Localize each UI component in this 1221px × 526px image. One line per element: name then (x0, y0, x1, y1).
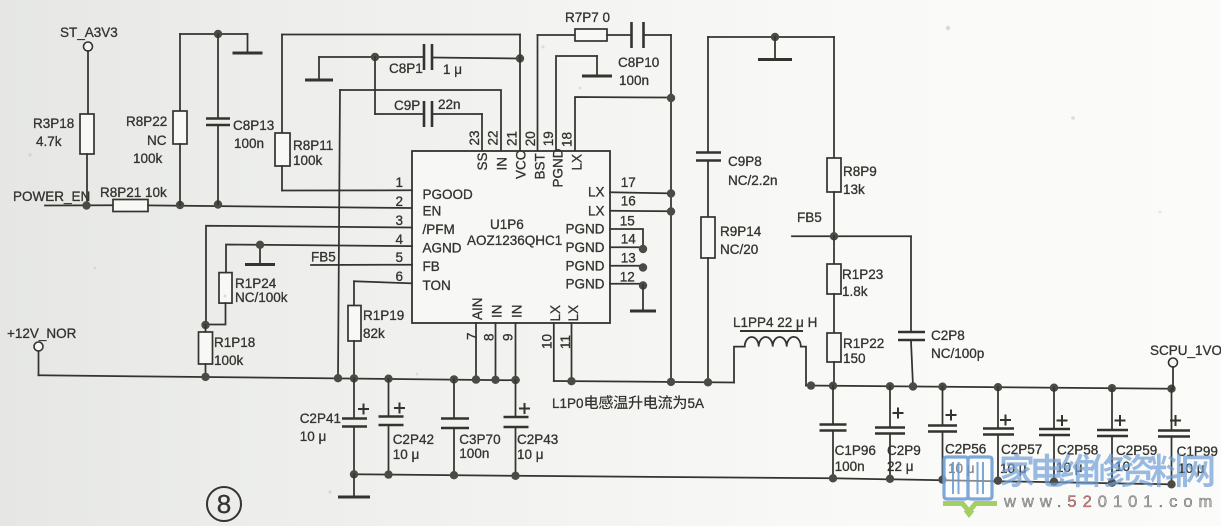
svg-text:R8P9: R8P9 (843, 164, 877, 179)
svg-text:R7P7 0: R7P7 0 (565, 10, 610, 25)
svg-text:150: 150 (843, 351, 866, 366)
svg-text:R1P24: R1P24 (235, 276, 277, 291)
svg-text:FB5: FB5 (311, 249, 336, 264)
junction +12V/C3P70 (450, 375, 458, 383)
junction GND/C1P99 (1167, 480, 1175, 488)
capacitor C2P8 (898, 236, 984, 386)
page number 8 (207, 487, 241, 521)
svg-text:6: 6 (395, 269, 403, 284)
svg-text:+12V_NOR: +12V_NOR (7, 326, 77, 341)
capacitor C3P70 (441, 379, 501, 475)
junction GND/C3P70 (450, 471, 458, 479)
junction pin14 (639, 245, 647, 253)
junction on POWER_EN at R8P22 (176, 201, 184, 209)
junction +12V/R1P19/C2P41 (350, 374, 358, 382)
svg-text:C2P9: C2P9 (887, 443, 921, 458)
svg-text:14: 14 (621, 231, 637, 246)
watermark text (1001, 453, 1214, 487)
svg-text:100k: 100k (133, 151, 163, 166)
capacitor C1P96 (820, 386, 876, 479)
junction VOUT/SCPU (1167, 385, 1175, 393)
ground top-left (233, 34, 263, 53)
svg-text:20: 20 (523, 131, 538, 146)
pin numbers right 17-12 (620, 175, 637, 285)
svg-text:1: 1 (395, 175, 403, 190)
svg-text:ST_A3V3: ST_A3V3 (60, 25, 118, 40)
svg-text:VCC: VCC (514, 150, 529, 179)
svg-text:18: 18 (560, 132, 575, 147)
svg-text:R8P21 10k: R8P21 10k (100, 185, 167, 200)
junction GND/C1P96 (829, 474, 837, 482)
svg-text:13k: 13k (843, 182, 865, 197)
capacitor C9P (375, 97, 482, 127)
svg-text:22: 22 (486, 130, 501, 145)
junction VOUT/C2P9 (886, 382, 894, 390)
svg-text:PGND: PGND (565, 222, 604, 237)
wire VCC top rail (282, 34, 520, 36)
ground top-right (758, 37, 792, 60)
pin 17 wire LX (610, 192, 671, 193)
junction on POWER_EN at C8P13 (214, 200, 222, 208)
junction +12V/pin7 (472, 375, 480, 383)
junction VOUT/C2P56 (938, 383, 946, 391)
wire pin23 SS column (481, 114, 483, 151)
svg-text:8: 8 (482, 333, 497, 341)
pin 12 wire PGND (610, 283, 643, 285)
wire IN column down to +12V rail (338, 90, 340, 378)
junction VOUT/L1PP4 (807, 381, 815, 389)
svg-text:13: 13 (621, 251, 636, 266)
capacitor C2P56 (928, 387, 986, 480)
junction VOUT/C2P57 (994, 383, 1002, 391)
pin names right LX LX PGND PGND PGND PGND (565, 185, 604, 292)
watermark logo book icon (943, 457, 997, 518)
capacitor C2P43 (504, 380, 559, 476)
svg-text:/PFM: /PFM (423, 222, 455, 237)
pin numbers left (395, 175, 403, 284)
svg-text:FB5: FB5 (797, 210, 822, 225)
svg-text:C9P: C9P (394, 98, 420, 113)
junction R1P18 top (201, 321, 209, 329)
svg-text:2: 2 (395, 194, 403, 209)
junction GND/C2P41 (350, 470, 358, 478)
resistor R8P21 (100, 185, 167, 212)
svg-text:U1P6: U1P6 (490, 217, 524, 232)
svg-text:POWER_EN: POWER_EN (13, 189, 90, 204)
junction GND/C2P57 (994, 477, 1002, 485)
ground PGND pins (630, 285, 656, 311)
junction AGND ground (256, 241, 264, 249)
capacitor C2P9 (875, 386, 921, 479)
junction on POWER_EN at R3P18 (82, 201, 90, 209)
pin 8 wire (495, 323, 497, 380)
svg-text:8: 8 (217, 489, 231, 519)
svg-text:LX: LX (570, 154, 585, 171)
svg-text:22n: 22n (438, 97, 461, 112)
wire LX rail (554, 381, 734, 383)
svg-text:L1P0: L1P0 (552, 396, 584, 411)
svg-text:1.8k: 1.8k (842, 284, 868, 299)
svg-text:C3P70: C3P70 (459, 432, 500, 447)
svg-text:EN: EN (423, 204, 442, 219)
svg-text:C2P56: C2P56 (945, 442, 986, 457)
pin 3 wire /PFM (206, 226, 412, 325)
junction VOUT/C2P59 (1108, 384, 1116, 392)
resistor R8P9 (827, 37, 877, 236)
svg-text:SCPU_1VO: SCPU_1VO (1150, 343, 1221, 358)
svg-text:NC: NC (147, 133, 167, 148)
svg-text:IN: IN (490, 305, 505, 319)
capacitor C2P42 (379, 379, 434, 475)
ground for C8P1 (305, 57, 333, 80)
capacitor C8P1 (389, 44, 520, 77)
wire GND rail (354, 474, 1172, 484)
node +12V_NOR (7, 326, 77, 375)
svg-text:82k: 82k (363, 326, 385, 341)
svg-text:FB: FB (423, 259, 440, 274)
node FB5 right (792, 210, 911, 236)
svg-text:BST: BST (533, 153, 548, 179)
svg-text:10 μ: 10 μ (517, 447, 544, 462)
junction GND/C2P56 (938, 476, 946, 484)
svg-text:R1P19: R1P19 (363, 308, 404, 323)
svg-text:AGND: AGND (423, 241, 462, 256)
svg-text:IN: IN (510, 305, 525, 319)
wire POWER_EN to pin2 (148, 205, 412, 208)
resistor R1P18 (199, 325, 256, 377)
svg-text:100n: 100n (459, 446, 489, 461)
svg-text:TON: TON (423, 278, 451, 293)
svg-text:SS: SS (475, 152, 490, 170)
junction VOUT/R1P22/C1P96 (829, 382, 837, 390)
svg-text:15: 15 (620, 213, 635, 228)
svg-text:L1PP4 22 μ H: L1PP4 22 μ H (733, 315, 817, 330)
junction pin13 (639, 263, 647, 271)
junction +12V/pin9/C2P43 (511, 376, 519, 384)
ground main (338, 474, 370, 497)
junction GND/C2P42 (384, 470, 392, 478)
svg-text:AOZ1236QHC1: AOZ1236QHC1 (467, 233, 562, 248)
pin numbers top 23-18 (467, 130, 575, 147)
svg-text:7: 7 (465, 332, 480, 340)
junction LX/pin18 (667, 94, 675, 102)
svg-text:100k: 100k (293, 153, 323, 168)
svg-text:12: 12 (620, 270, 635, 285)
junction pin16/LX (667, 207, 675, 215)
svg-text:NC/2.2n: NC/2.2n (728, 173, 778, 188)
svg-text:22 μ: 22 μ (887, 459, 914, 474)
inductor L1PP4 (733, 315, 817, 386)
wire C8P1 left (319, 56, 424, 58)
svg-text:R1P18: R1P18 (214, 335, 255, 350)
svg-text:C8P1: C8P1 (389, 61, 423, 76)
pin 4 wire AGND (226, 245, 412, 273)
svg-text:LX: LX (588, 185, 605, 200)
node POWER_EN (13, 189, 113, 206)
svg-text:R9P14: R9P14 (720, 224, 762, 239)
svg-text:LX: LX (588, 203, 605, 218)
svg-text:10: 10 (540, 334, 555, 349)
svg-text:NC/20: NC/20 (720, 242, 758, 257)
junction GND/C2P58 (1050, 478, 1058, 486)
junction +12V/pin8 (491, 376, 499, 384)
svg-text:PGND: PGND (565, 240, 604, 255)
ground pin19 (582, 56, 612, 76)
junction LX/R9P14 (704, 378, 712, 386)
junction LX/pin11 (567, 377, 575, 385)
junction VOUT/C2P8 (909, 382, 917, 390)
junction FB5/R8P9 (830, 232, 838, 240)
svg-text:R1P23: R1P23 (842, 267, 883, 282)
resistor R1P23 (827, 236, 883, 299)
junction top-right ground (771, 33, 779, 41)
wire LX main column (670, 35, 672, 382)
node FB5 left / pin 5 wire (311, 249, 412, 265)
capacitor C9P8 (696, 37, 778, 217)
pin 9 wire (515, 323, 517, 380)
capacitor C2P58 (1039, 388, 1098, 482)
svg-text:C2P43: C2P43 (517, 432, 558, 447)
wire VOUT rail (806, 386, 1173, 389)
svg-text:1 μ: 1 μ (443, 62, 462, 77)
capacitor C2P57 (983, 387, 1042, 481)
svg-text:PGND: PGND (551, 148, 566, 187)
svg-text:PGND: PGND (565, 259, 604, 274)
junction LX/column (667, 378, 675, 386)
pin 16 wire LX (610, 210, 671, 213)
svg-text:AIN: AIN (470, 297, 485, 320)
svg-text:R8P22: R8P22 (126, 114, 167, 129)
svg-text:C2P58: C2P58 (1057, 443, 1098, 458)
resistor R9P14 (701, 217, 762, 382)
junction pin17/LX (667, 189, 675, 197)
svg-text:R3P18: R3P18 (33, 116, 74, 131)
wire pin21 VCC column (519, 35, 521, 152)
svg-text:LX: LX (566, 305, 581, 322)
svg-text:C8P10: C8P10 (618, 55, 659, 70)
node ST_A3V3 (60, 25, 118, 114)
svg-text:4.7k: 4.7k (36, 134, 62, 149)
svg-text:10 μ: 10 μ (300, 429, 327, 444)
resistor R1P19 (348, 281, 404, 378)
resistor R1P24 (206, 273, 288, 325)
pin 6 wire TON (354, 281, 412, 283)
pin numbers bottom 7 8 9 10 11 (465, 332, 574, 349)
svg-text:5: 5 (395, 250, 403, 265)
svg-text:LX: LX (548, 305, 563, 322)
junction VCC column (516, 54, 524, 62)
svg-text:C2P57: C2P57 (1001, 442, 1042, 457)
junction GND/C2P43 (511, 472, 519, 480)
pin 15 wire PGND (610, 229, 643, 247)
svg-text:19: 19 (541, 131, 556, 146)
resistor R1P22 (827, 294, 884, 386)
wire pin19 PGND column (556, 56, 597, 151)
capacitor C8P10 (618, 22, 671, 88)
capacitor C2P41 (300, 378, 369, 474)
svg-text:NC/100p: NC/100p (931, 346, 984, 361)
svg-text:23: 23 (467, 130, 482, 145)
svg-text:C2P41: C2P41 (300, 411, 341, 426)
resistor R7P7 (538, 10, 632, 41)
svg-text:5A: 5A (688, 396, 705, 411)
wire +12V rail (39, 375, 520, 380)
junction VOUT/C2P58 (1050, 384, 1058, 392)
svg-text:C1P96: C1P96 (835, 443, 876, 458)
svg-text:IN: IN (495, 157, 510, 171)
svg-text:PGOOD: PGOOD (423, 187, 474, 202)
svg-text:C9P8: C9P8 (728, 154, 762, 169)
wire top-right rail (708, 36, 834, 38)
svg-text:C2P8: C2P8 (931, 328, 965, 343)
svg-text:16: 16 (621, 194, 636, 209)
svg-text:R8P11: R8P11 (293, 138, 333, 153)
svg-text:10 μ: 10 μ (393, 447, 420, 462)
pin 13 wire PGND (610, 265, 643, 267)
svg-text:C2P42: C2P42 (393, 432, 434, 447)
resistor R8P22 (126, 34, 187, 205)
pin names left (423, 187, 474, 293)
junction GND/C2P9 (886, 475, 894, 483)
junction GND/C2P59 (1108, 479, 1116, 487)
capacitor C8P13 (206, 34, 274, 204)
note L1P0 inductor temperature-rise current 5A (552, 395, 704, 411)
svg-text:www.520101.com: www.520101.com (1003, 493, 1218, 511)
wire IN branch (340, 90, 501, 151)
svg-text:9: 9 (501, 333, 516, 341)
pin names top SS IN VCC BST PGND LX (475, 148, 585, 187)
junction +12V/IN (334, 374, 342, 382)
wire pin20 BST column (537, 35, 539, 151)
svg-text:100n: 100n (619, 73, 649, 88)
resistor R3P18 (33, 114, 94, 205)
wire SS branch vertical (374, 57, 376, 114)
pin 1 wire PGOOD (282, 189, 412, 191)
junction +12V/C2P42 (384, 375, 392, 383)
junction +12V/R1P18 (201, 373, 209, 381)
svg-text:17: 17 (621, 175, 636, 190)
svg-text:3: 3 (395, 213, 403, 228)
ground AGND (245, 245, 275, 265)
svg-text:4: 4 (395, 232, 403, 247)
svg-text:PGND: PGND (565, 277, 604, 292)
node SCPU_1V0 (1150, 343, 1221, 389)
pin 7 wire (475, 323, 477, 380)
pin 10 wire LX (553, 323, 555, 381)
pin names bottom AIN IN IN LX LX (470, 297, 581, 321)
svg-text:NC/100k: NC/100k (235, 290, 288, 305)
svg-text:100n: 100n (835, 459, 865, 474)
junction pin12 (639, 281, 647, 289)
wire pin18 LX up (575, 97, 668, 151)
resistor R8P11 (275, 35, 333, 191)
wire top rail R8P22/C8P13 (180, 33, 248, 35)
svg-text:100k: 100k (214, 353, 244, 368)
pin 14 wire PGND (610, 246, 643, 248)
svg-text:100n: 100n (234, 136, 264, 151)
capacitor C2P59 (1097, 388, 1157, 483)
svg-text:21: 21 (505, 131, 520, 146)
junction top rail at C8P13 (214, 30, 222, 38)
svg-text:R1P22: R1P22 (843, 336, 884, 351)
op-amp U1P6 AOZ1236QHC1 body (412, 151, 610, 323)
capacitor C1P99 (1158, 389, 1218, 485)
junction C8P1/C9P (371, 53, 379, 61)
pin 11 wire LX (571, 323, 573, 381)
svg-text:C8P13: C8P13 (233, 118, 274, 133)
